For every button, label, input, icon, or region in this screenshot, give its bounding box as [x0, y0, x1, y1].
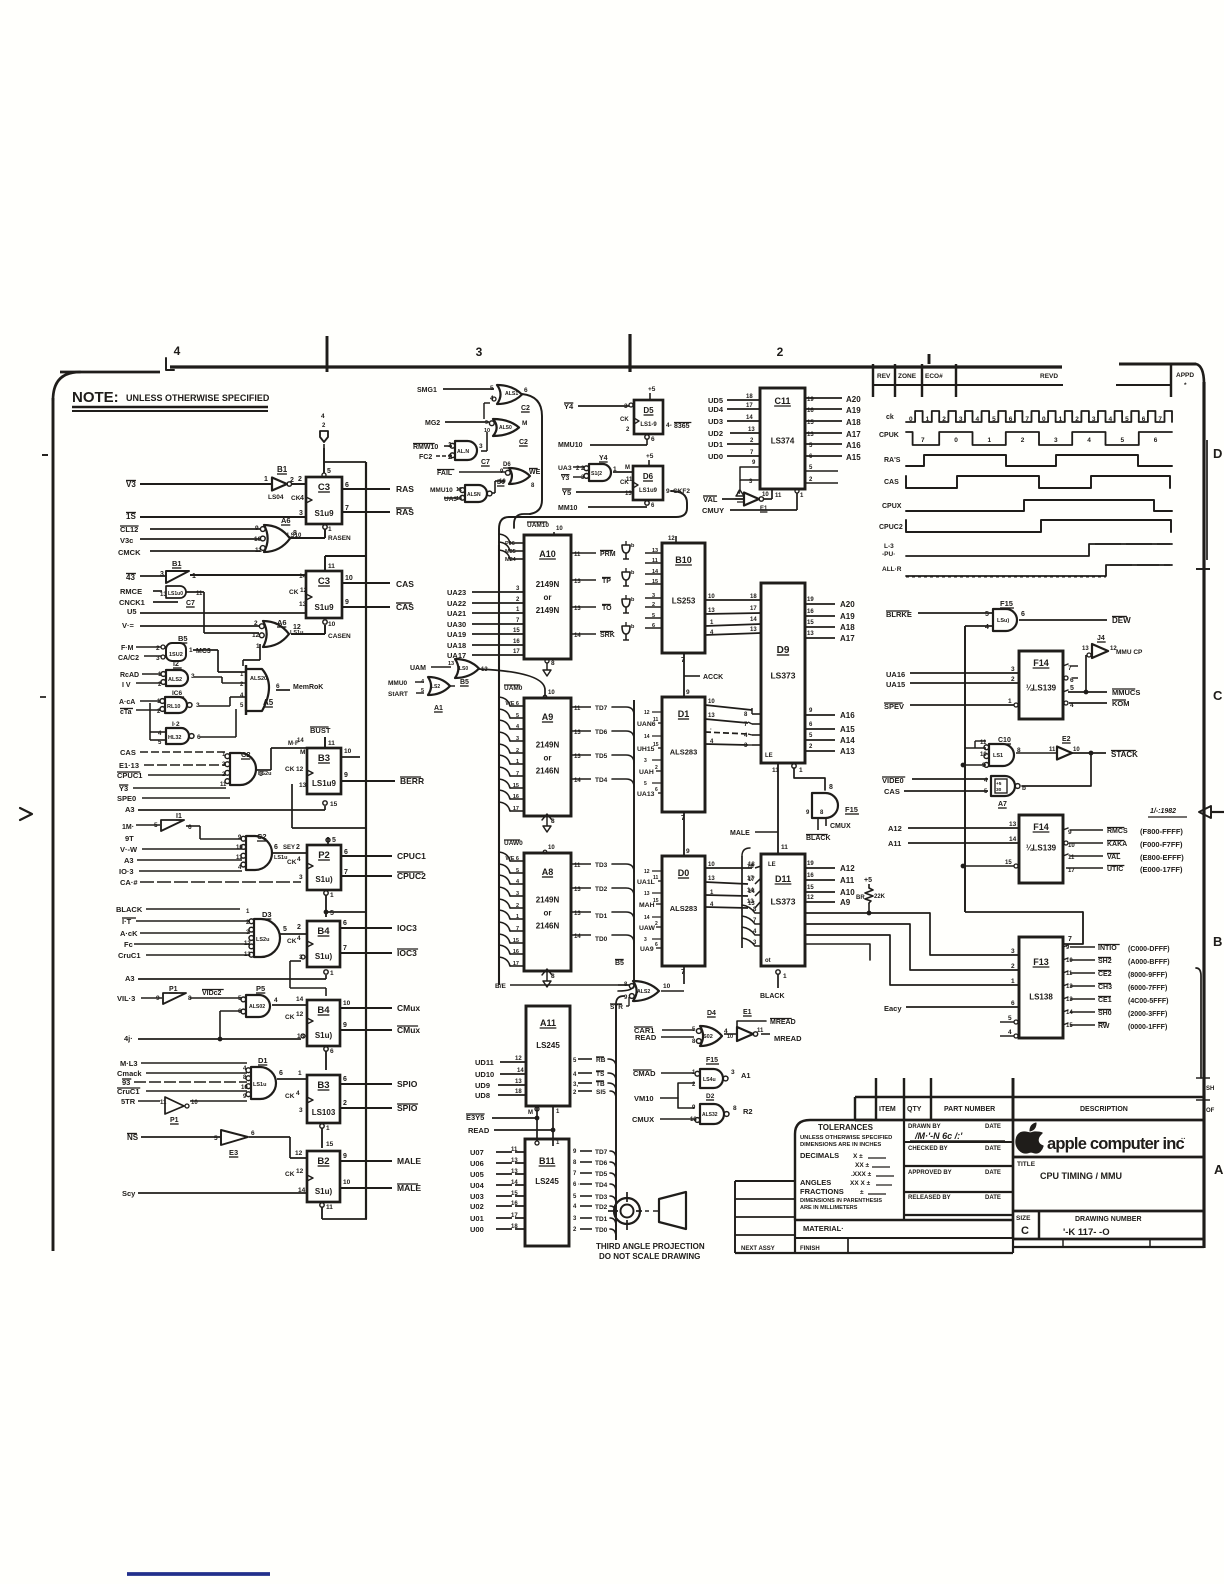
flip-flop P2 (CPUC): [287, 845, 341, 890]
wire E3 to B2: [249, 1137, 307, 1158]
svg-text:4: 4: [297, 935, 301, 942]
svg-text:ALS0: ALS0: [499, 425, 512, 431]
svg-text:-PU·: -PU·: [882, 551, 895, 558]
wire MMU0 to A1: [388, 680, 424, 687]
svg-text:NOTE:: NOTE:: [72, 389, 119, 406]
wire C7 out up to C2mid: [481, 432, 487, 451]
svg-text:13: 13: [299, 601, 307, 608]
svg-text:11: 11: [653, 717, 659, 723]
svg-text:3: 3: [1011, 666, 1015, 673]
svg-text:B1: B1: [277, 465, 288, 474]
tolerances text: [800, 1123, 894, 1211]
svg-text:LS0: LS0: [459, 666, 468, 672]
svg-text:UA23: UA23: [447, 588, 466, 597]
gate D6a (WE): [499, 462, 541, 489]
gate D6b: [456, 480, 505, 502]
svg-text:A1: A1: [434, 705, 443, 712]
flip-flop C3 second (CAS): [289, 571, 342, 618]
svg-text:5: 5: [652, 613, 655, 619]
wire A10 ground pin 8: [543, 659, 555, 676]
svg-text:SPIO: SPIO: [397, 1079, 418, 1089]
svg-text:U00: U00: [470, 1225, 484, 1234]
svg-text:M·L3: M·L3: [120, 1059, 138, 1068]
wire D11 out6 to F13 row: [805, 924, 1019, 970]
svg-text:3: 3: [299, 1107, 303, 1114]
svg-text:A16: A16: [846, 441, 861, 450]
wire D9 OE pin 1 to F15c: [792, 764, 833, 791]
svg-text:WE 6: WE 6: [506, 856, 519, 862]
svg-text:6: 6: [344, 849, 348, 856]
svg-text:CE1: CE1: [1098, 997, 1112, 1004]
svg-text:RELEASED BY: RELEASED BY: [908, 1195, 951, 1201]
svg-text:10: 10: [1073, 747, 1080, 753]
svg-text:TD2: TD2: [595, 886, 608, 893]
svg-text:RL10: RL10: [167, 704, 180, 710]
svg-text:TP: TP: [602, 578, 611, 585]
svg-text:8: 8: [733, 1105, 737, 1112]
svg-text:UAM: UAM: [410, 665, 426, 672]
gate Y4: [581, 455, 617, 481]
gate P5: [238, 984, 278, 1017]
svg-text:TD1: TD1: [595, 1216, 608, 1223]
wire stub to ID2 inputs: [150, 703, 165, 740]
svg-text:4: 4: [297, 856, 301, 863]
wire D9 LE pin 11: [765, 753, 779, 854]
svg-text:ARE IN MILLIMETERS: ARE IN MILLIMETERS: [800, 1205, 858, 1211]
svg-text:11: 11: [511, 1147, 518, 1153]
gate C2b (CPUC decode): [236, 832, 287, 871]
svg-text:E1·13: E1·13: [119, 761, 139, 770]
pull-up flag at top of C3: [320, 413, 328, 448]
svg-text:ECO#: ECO#: [925, 373, 943, 380]
svg-text:9: 9: [686, 689, 690, 696]
wire A7 out to STACK node: [1022, 755, 1091, 786]
svg-text:15: 15: [807, 885, 814, 891]
svg-text:±: ±: [860, 1189, 864, 1196]
wire F13 pin5 stub: [1000, 1015, 1018, 1024]
svg-text:11: 11: [775, 493, 782, 499]
flip-flop D6 box: [620, 466, 663, 500]
svg-text:M: M: [528, 1110, 533, 1116]
svg-text:9: 9: [343, 1022, 347, 1029]
wire D9 out A15: [805, 722, 855, 734]
svg-text:6: 6: [279, 1070, 283, 1077]
bus arcs into A8: [499, 852, 524, 967]
svg-text:A20: A20: [840, 600, 855, 609]
svg-text:1: 1: [1011, 978, 1015, 985]
buffer B1 second: [160, 559, 196, 583]
wire B5low in8 from bus: [618, 984, 629, 986]
zone tick 4/3: [326, 336, 329, 372]
wire I1 to C2b: [125, 826, 242, 843]
svg-text:FRACTIONS: FRACTIONS: [800, 1187, 844, 1196]
sheet border top ruler line: [60, 364, 1196, 372]
svg-text:CMux: CMux: [397, 1003, 420, 1013]
wire A9 out TD5: [571, 753, 634, 763]
svg-text:S1u9: S1u9: [314, 509, 334, 518]
inverter J4: [1082, 635, 1143, 658]
wire Y3d to Y4: [561, 475, 584, 482]
wire UD3 to C11: [708, 415, 760, 426]
svg-text:16: 16: [511, 1201, 518, 1207]
svg-text:ALS32: ALS32: [702, 1112, 718, 1118]
wire /CMUX out: [341, 1022, 420, 1035]
svg-text:B1: B1: [172, 559, 182, 568]
svg-text:10: 10: [663, 983, 671, 990]
gate A5 big: [240, 665, 280, 715]
wire A9 ground pin 8: [542, 814, 555, 832]
wire FC2 to C7: [419, 454, 452, 461]
IC C11 LS374: [760, 388, 805, 489]
svg-text:S1(2: S1(2: [591, 471, 602, 477]
zone tick 2/1: [928, 354, 931, 364]
svg-text:4: 4: [296, 1090, 300, 1097]
svg-text:UH15: UH15: [637, 746, 655, 753]
svg-text:17: 17: [747, 876, 754, 882]
svg-text:C: C: [1021, 1225, 1029, 1237]
svg-text:15: 15: [511, 1191, 518, 1197]
svg-text:+5: +5: [996, 781, 1002, 787]
wire TS to C3 pin 3: [126, 510, 306, 521]
sheet SH OF vertical labels: [1196, 968, 1215, 1114]
svg-text:7: 7: [343, 945, 347, 952]
svg-text:RMW10: RMW10: [413, 444, 438, 451]
wire D5 bottom bubble MMU10: [558, 435, 655, 449]
svg-text:UD9: UD9: [475, 1081, 490, 1090]
svg-text:DATE: DATE: [985, 1170, 1001, 1176]
svg-text:10: 10: [236, 845, 243, 851]
svg-text:TD7: TD7: [595, 705, 608, 712]
svg-text:10: 10: [1068, 843, 1075, 849]
wire ML3 to D1: [120, 1059, 247, 1070]
svg-text:A14: A14: [840, 736, 855, 745]
wire F14b out UTIL: [1066, 865, 1183, 874]
wire START to A1: [388, 691, 424, 698]
svg-text:RcAD: RcAD: [120, 672, 139, 679]
svg-text:FAIL: FAIL: [437, 470, 453, 477]
svg-text:U04: U04: [470, 1181, 485, 1190]
svg-text:LS245: LS245: [536, 1041, 560, 1050]
svg-text:FC2: FC2: [419, 454, 432, 461]
svg-text:MMU0: MMU0: [388, 680, 408, 687]
wire A10 out SRK: [571, 632, 615, 640]
svg-text:11: 11: [220, 782, 227, 788]
svg-text:U5: U5: [127, 607, 137, 616]
svg-text:LE: LE: [765, 753, 773, 759]
wire F14b out VAL: [1063, 853, 1184, 862]
svg-text:I V: I V: [122, 682, 131, 689]
svg-text:¼LS139: ¼LS139: [1026, 843, 1057, 852]
svg-text:2: 2: [516, 903, 519, 909]
wire C2top input from below: [484, 403, 490, 419]
wire B10 pin7 to D1 with ACCK: [681, 653, 723, 697]
svg-text:2: 2: [298, 476, 302, 483]
svg-text:ACCK: ACCK: [703, 674, 723, 681]
svg-text:14: 14: [517, 1068, 524, 1074]
wire BLRKE to F15: [886, 610, 992, 619]
svg-text:1: 1: [926, 416, 930, 423]
svg-text:CK: CK: [285, 766, 295, 773]
wire C3#2 top from main vertical: [325, 556, 367, 571]
svg-text:11: 11: [328, 563, 335, 570]
terminator glyph 1: [622, 541, 635, 559]
svg-text:'-K 117- -O: '-K 117- -O: [1063, 1227, 1110, 1238]
svg-text:M: M: [300, 749, 305, 756]
svg-text:UA19: UA19: [447, 630, 466, 639]
svg-text:PART NUMBER: PART NUMBER: [944, 1106, 995, 1113]
svg-text:S1u): S1u): [315, 1031, 333, 1040]
wire VAL to E1: [703, 495, 743, 504]
svg-text:LS1-9: LS1-9: [640, 422, 657, 428]
svg-text:V3c: V3c: [120, 536, 133, 545]
wire D1 out 13: [705, 713, 748, 723]
wire SCG long to B2: [122, 1189, 307, 1198]
wire CPUC1 to C2: [117, 771, 226, 780]
next assy table: [735, 1181, 795, 1253]
wire UA23 to A10: [447, 586, 524, 597]
svg-text:10: 10: [241, 1085, 248, 1091]
svg-text:DIMENSIONS ARE IN INCHES: DIMENSIONS ARE IN INCHES: [800, 1142, 881, 1148]
IC D1 ALS283: [662, 697, 705, 812]
wire A6b lower input: [243, 644, 260, 660]
svg-text:CK: CK: [289, 589, 299, 596]
wire CMCK to A6: [118, 548, 260, 557]
wires D1 left extra pins: [652, 711, 662, 713]
wire B3 feedback to bus: [292, 784, 367, 828]
svg-text:4: 4: [174, 344, 181, 358]
svg-text:10: 10: [762, 492, 769, 498]
svg-text:10: 10: [343, 1000, 351, 1007]
svg-text:14: 14: [652, 569, 659, 575]
wire D11 OE pin: [760, 958, 787, 1000]
gate C2 (BERR decode): [220, 750, 271, 788]
flip-flop B3 second (SPIO): [285, 1075, 340, 1123]
wire READ to D2a: [120, 672, 161, 679]
svg-text:SPE0: SPE0: [117, 794, 136, 803]
svg-text:A15: A15: [840, 725, 855, 734]
svg-text:A17: A17: [846, 430, 861, 439]
svg-text:6: 6: [345, 482, 349, 489]
svg-text:1: 1: [189, 647, 193, 654]
svg-text:15: 15: [326, 1141, 334, 1148]
wire D11 out A9: [805, 895, 851, 907]
svg-text:XX ±: XX ±: [855, 1162, 869, 1169]
border right vertical: [1196, 364, 1207, 1248]
wire D6b out to D6a: [492, 481, 505, 493]
wire NS to E3: [127, 1133, 220, 1142]
wire B2 bottom feedback to bus: [320, 1203, 367, 1219]
wire A10 out TP: [571, 578, 611, 586]
wire bus to P2 pin5: [326, 837, 336, 845]
svg-text:TD1: TD1: [595, 913, 608, 920]
svg-text:17: 17: [511, 1213, 518, 1219]
IC F13 LS138: [1019, 937, 1063, 1038]
wire C2top out loop: [522, 394, 542, 514]
wire C11 spare out 5: [805, 465, 838, 471]
wire D6box out 9 CKF2: [666, 488, 690, 495]
wire UA3 to D6b: [444, 496, 460, 503]
svg-text:11: 11: [652, 558, 658, 564]
wire D11 out2 down: [805, 944, 870, 960]
svg-text:13: 13: [807, 631, 814, 637]
svg-text:A3: A3: [124, 856, 134, 865]
svg-text:E1: E1: [743, 1009, 752, 1016]
svg-text:MATERIAL·: MATERIAL·: [803, 1224, 844, 1233]
svg-text:+5: +5: [646, 453, 654, 460]
svg-text:RASEN: RASEN: [328, 535, 351, 542]
wire B10 out 12: [705, 606, 761, 614]
svg-text:TS: TS: [596, 1071, 605, 1078]
svg-text:E2: E2: [1062, 736, 1071, 743]
gate D1 (SPIO decode): [241, 1056, 276, 1100]
wire UD8 to A11: [475, 1089, 526, 1100]
svg-text:DRAWING NUMBER: DRAWING NUMBER: [1075, 1216, 1142, 1223]
zone hook below 4: [166, 358, 174, 370]
svg-text:SH: SH: [1206, 1086, 1214, 1092]
svg-text:5: 5: [516, 713, 519, 719]
gate F15 low: [692, 1057, 751, 1088]
third angle projection cone symbol: [653, 1192, 686, 1229]
svg-text:6: 6: [1011, 1000, 1015, 1007]
IC A8 RAM: [524, 853, 571, 971]
svg-text:CMCK: CMCK: [118, 548, 141, 557]
svg-text:ck: ck: [886, 414, 894, 421]
wire B4 feedback loop: [290, 961, 326, 996]
waveform RAS: [906, 455, 1172, 466]
svg-text:D4: D4: [707, 1010, 716, 1017]
svg-text:LS374: LS374: [771, 437, 795, 446]
wire UA11 to D0: [639, 898, 662, 909]
svg-text:13: 13: [644, 891, 650, 897]
pullup +5 over D6box: [646, 453, 654, 466]
svg-text:M: M: [522, 420, 527, 427]
svg-text:3,: 3,: [573, 1082, 578, 1088]
wire F14a out 5 MMUCS: [1063, 685, 1140, 697]
wire UD9 to A11: [475, 1079, 526, 1090]
wire D1 pin7 to D0: [681, 812, 690, 856]
wire D3 out to B4: [280, 924, 307, 934]
svg-text:5: 5: [332, 837, 336, 844]
svg-text:CPUK: CPUK: [879, 432, 899, 439]
wire UA9 to D0: [640, 942, 662, 953]
inverter E2: [1049, 736, 1080, 760]
flip-flop B2 (MALE): [285, 1151, 340, 1202]
size drawing-number cell: [1013, 1211, 1204, 1239]
svg-text:14: 14: [297, 738, 304, 744]
svg-text:LS2u: LS2u: [256, 937, 269, 943]
wire F-M to B5: [121, 645, 161, 652]
wire A10 out PRM: [571, 551, 616, 559]
svg-text:10: 10: [548, 690, 555, 696]
svg-text:CMUX: CMUX: [830, 823, 851, 830]
wire cluster loop to A10 top: [514, 514, 530, 528]
wire RAS out: [342, 482, 414, 494]
svg-text:UD11: UD11: [475, 1058, 494, 1067]
wire loop D6box out to RAM bus: [499, 491, 687, 545]
svg-text:2: 2: [156, 645, 160, 652]
svg-text:WE 6: WE 6: [506, 701, 519, 707]
svg-text:4: 4: [976, 416, 980, 423]
svg-text:3: 3: [516, 736, 519, 742]
wire READ to D4: [635, 1033, 694, 1042]
svg-text:I1: I1: [176, 813, 182, 820]
svg-text:17: 17: [746, 403, 753, 409]
svg-text:1: 1: [783, 973, 787, 980]
pullup +5 over D5: [648, 386, 656, 400]
svg-text:RA'S: RA'S: [884, 457, 901, 464]
svg-text:5: 5: [1070, 685, 1074, 692]
svg-text:UAW: UAW: [639, 925, 655, 932]
border corner arc top-left: [53, 372, 80, 400]
svg-text:PRM: PRM: [600, 551, 616, 558]
svg-text:¼LS139: ¼LS139: [1026, 683, 1057, 692]
wire UA19 to A10: [447, 628, 524, 639]
svg-text:1: 1: [328, 526, 332, 533]
gate D2a: [158, 661, 195, 688]
svg-text:15: 15: [807, 620, 814, 626]
wire C11 A15 out: [805, 453, 861, 462]
svg-text:MREAD: MREAD: [774, 1034, 802, 1043]
svg-text:3: 3: [299, 510, 303, 517]
wire F14b out RMCS: [1063, 827, 1183, 836]
svg-text:A11: A11: [840, 876, 855, 885]
wire B1b to C3b pin 14: [190, 574, 306, 576]
svg-text:C7: C7: [481, 459, 490, 466]
svg-text:7: 7: [1068, 936, 1072, 943]
svg-text:4: 4: [985, 624, 989, 631]
svg-text:B11: B11: [539, 1156, 555, 1166]
svg-text:STR: STR: [610, 1004, 623, 1011]
gate C7: [448, 441, 490, 466]
svg-text:LE: LE: [768, 862, 776, 868]
svg-text:RAS: RAS: [396, 484, 414, 494]
IC A10 RAM: [524, 535, 571, 659]
svg-text:14: 14: [644, 915, 650, 921]
gate A1: [421, 677, 450, 712]
wire V to C2b: [120, 845, 242, 854]
wire IV to D2a: [122, 682, 161, 689]
svg-text:13: 13: [1009, 821, 1017, 828]
wire D11 out9 to F13 row: [805, 911, 1019, 955]
svg-text:13: 13: [511, 1169, 518, 1175]
svg-text:A8: A8: [542, 867, 554, 877]
left margin arrow: [20, 808, 32, 820]
svg-text:LS1u9: LS1u9: [639, 488, 658, 494]
wire D11 out A11: [805, 873, 855, 885]
svg-text:5: 5: [330, 910, 334, 917]
svg-text:B/E: B/E: [495, 983, 507, 990]
wire A1 out: [450, 678, 455, 686]
svg-text:(6000-7FFF): (6000-7FFF): [1128, 985, 1167, 992]
svg-text:30: 30: [996, 787, 1002, 793]
wire D11 out5 to F13 row: [805, 935, 1019, 985]
wire UA3b to Y4: [558, 465, 584, 472]
svg-text:MemRoK: MemRoK: [293, 684, 323, 691]
svg-text:ALS1: ALS1: [505, 391, 518, 397]
svg-text:THIRD ANGLE PROJECTION: THIRD ANGLE PROJECTION: [596, 1242, 705, 1251]
wire C11 A18 out: [805, 418, 861, 427]
svg-text:R2: R2: [743, 1107, 753, 1116]
wire /RAS out: [342, 505, 414, 517]
svg-text:2: 2: [652, 602, 655, 608]
wire D9 out A18: [805, 620, 855, 632]
IC A9 RAM: [524, 698, 571, 816]
svg-text:(F800-FFFF): (F800-FFFF): [1140, 827, 1183, 836]
wire B10 out 4: [705, 627, 761, 636]
svg-text:6: 6: [1021, 611, 1025, 618]
svg-text:D: D: [1213, 446, 1222, 461]
waveform CAS: [906, 476, 1170, 488]
